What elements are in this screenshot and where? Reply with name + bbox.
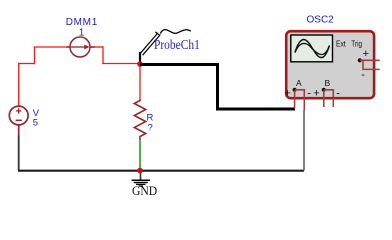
node: top junction dot <box>137 61 143 67</box>
svg-text:+: + <box>363 48 369 60</box>
wire: junction down to resistor top <box>139 64 141 100</box>
wire: corner down from DMM level <box>102 46 104 63</box>
scope ext trig terminal <box>358 48 380 81</box>
DMM1 ammeter circle <box>67 37 96 57</box>
svg-text:5: 5 <box>33 118 38 129</box>
node: ground junction dot <box>137 168 143 174</box>
wire: DMM right pin to corner <box>91 46 104 48</box>
voltage source V (5V) circle <box>9 106 28 125</box>
svg-text:DMM1: DMM1 <box>66 17 98 28</box>
svg-text:-: - <box>361 69 365 81</box>
svg-text:+: + <box>284 88 290 100</box>
wire: riser up to DMM level <box>34 47 36 64</box>
probe ProbeCh1 icon <box>140 30 191 64</box>
svg-text:1: 1 <box>79 28 85 39</box>
svg-text:-: - <box>336 87 340 99</box>
wire: gray from scope A- down to ground rail <box>303 110 305 171</box>
svg-text:OSC2: OSC2 <box>307 15 335 26</box>
oscilloscope OSC2 body <box>286 31 374 98</box>
wire: left rail down to V source <box>18 63 20 106</box>
svg-text:Ext: Ext <box>336 38 346 48</box>
svg-text:-: - <box>307 87 311 99</box>
ground GND symbol <box>132 172 151 186</box>
resistor R zigzag <box>134 100 145 140</box>
svg-text:A: A <box>296 78 302 88</box>
svg-text:Trig: Trig <box>351 38 362 48</box>
wire: horizontal into top junction <box>102 63 140 65</box>
svg-text:B: B <box>325 78 331 88</box>
svg-text:ProbeCh1: ProbeCh1 <box>154 37 200 52</box>
wire: V source bottom pin stub <box>18 125 20 136</box>
svg-text:GND: GND <box>132 184 157 198</box>
svg-text:?: ? <box>148 123 153 134</box>
svg-text:+: + <box>313 88 319 100</box>
scope channel A terminal <box>284 78 311 110</box>
wire: thick black from junction to scope channel A <box>140 65 295 110</box>
wire: left rail horizontal from V branch to DMM branch <box>19 63 35 65</box>
wire: V source down to ground rail <box>18 136 20 171</box>
wire: green from resistor to ground junction <box>139 140 141 171</box>
scope channel B terminal <box>313 78 340 107</box>
wire: bottom ground rail <box>18 170 304 172</box>
wire: horizontal into DMM left pin <box>34 46 71 48</box>
oscilloscope screen <box>291 35 333 62</box>
